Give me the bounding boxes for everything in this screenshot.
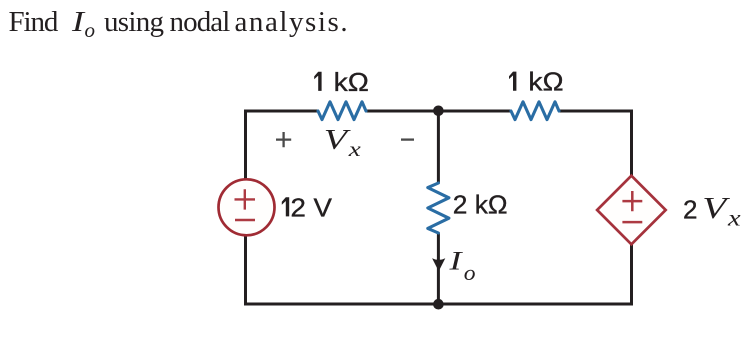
resistor R1 1 kOhm (top-left zigzag) — [318, 102, 366, 120]
svg-text:I: I — [448, 246, 463, 275]
label 1 kOhm right — [509, 72, 516, 91]
U1 minus sign — [622, 221, 642, 224]
svg-text:using: using — [104, 6, 164, 38]
wire: top rail left segment — [246, 111, 319, 180]
svg-text:I: I — [71, 6, 86, 38]
voltage source V1 12V circle — [219, 179, 275, 235]
U1 plus sign — [622, 191, 642, 211]
svg-text:kΩ: kΩ — [528, 67, 563, 97]
wire: left rail below source to bottom rail — [246, 235, 439, 304]
svg-text:o: o — [85, 18, 96, 42]
svg-text:V: V — [702, 190, 730, 225]
svg-text:2: 2 — [683, 195, 697, 225]
svg-text:kΩ: kΩ — [334, 67, 369, 97]
wire: middle branch bottom (R3 to bottom node) — [437, 233, 440, 305]
wire: top rail node to R2 — [438, 110, 511, 113]
label 1 kOhm left — [314, 72, 321, 91]
node dot top (node between R1,R2,R3) — [433, 106, 444, 117]
wire: top rail after R2 to right corner, down to diamond — [559, 111, 632, 176]
svg-text:V: V — [324, 124, 352, 156]
minus sign of Vx polarity — [401, 138, 414, 140]
wire: middle branch top (node to R3) — [437, 111, 440, 183]
V1 minus sign — [235, 219, 255, 221]
svg-text:Find: Find — [9, 6, 59, 38]
svg-text:x: x — [727, 205, 742, 230]
current arrow Io — [432, 258, 445, 271]
label 12 V — [282, 197, 289, 216]
svg-text:nodal: nodal — [170, 6, 231, 38]
V1 plus sign — [235, 189, 256, 209]
svg-text:2 kΩ: 2 kΩ — [453, 189, 508, 219]
dependent source U1 diamond 2Vx — [597, 176, 666, 245]
wire: top rail between R1 and node — [366, 110, 438, 113]
plus sign of Vx polarity — [276, 132, 291, 147]
svg-text:o: o — [464, 260, 476, 285]
resistor R3 2 kOhm (middle vertical zigzag) — [428, 183, 449, 233]
resistor R2 1 kOhm (top-right zigzag) — [511, 102, 559, 120]
node dot bottom — [433, 299, 444, 310]
title: Find Io using nodal analysis. — [9, 6, 350, 42]
svg-text:x: x — [348, 137, 362, 161]
wire: bottom rail right + right rail below diamond — [438, 244, 631, 304]
svg-text:2 V: 2 V — [291, 192, 333, 222]
svg-text:analysis.: analysis. — [235, 6, 350, 38]
